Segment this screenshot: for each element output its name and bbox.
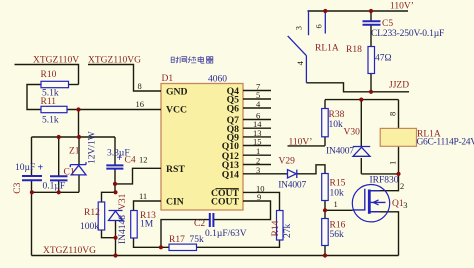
- diode V30 IN4007: [353, 147, 370, 157]
- node gate divider: [323, 208, 327, 212]
- wire CIN pin11 to R13: [134, 201, 162, 211]
- wire R18 bottom lead: [370, 74, 372, 92]
- svg-text:V31: V31: [118, 193, 128, 210]
- wire C3 top lead: [31, 137, 33, 175]
- svg-text:C1: C1: [64, 168, 75, 178]
- wire C3 bottom lead down left vertical: [31, 181, 33, 256]
- svg-text:3: 3: [403, 200, 407, 210]
- wire coil bottom to drain node: [371, 146, 399, 190]
- wire C4 leads: [114, 137, 116, 192]
- glyph 继: [188, 57, 196, 63]
- svg-text:R15: R15: [330, 179, 346, 189]
- svg-text:1: 1: [334, 199, 338, 209]
- svg-text:+: +: [117, 153, 123, 164]
- wire R11 right to VCC pin16: [67, 109, 161, 111]
- op-amp U1 : IC D1 4060 body: [161, 84, 243, 211]
- svg-text:Z1: Z1: [69, 147, 80, 157]
- node 24V rail V30: [359, 98, 363, 102]
- node drain: [396, 172, 400, 176]
- node R11/VCC: [76, 107, 80, 111]
- wire top rail (12V): [32, 136, 116, 138]
- svg-text:COUT: COUT: [211, 197, 240, 208]
- wire Q8 stub pin14: [243, 127, 271, 129]
- wire R15 bottom / gate node: [325, 201, 353, 219]
- svg-text:12: 12: [139, 155, 148, 165]
- diode V29 IN4007: [288, 170, 297, 178]
- svg-text:11: 11: [139, 191, 147, 201]
- resistor R15: [322, 174, 329, 201]
- svg-text:RST: RST: [166, 164, 185, 175]
- wire 110V top rail: [308, 10, 409, 12]
- svg-text:R12: R12: [84, 208, 100, 218]
- resistor R10: [41, 81, 69, 87]
- svg-text:110V’: 110V’: [390, 2, 414, 12]
- svg-text:R16: R16: [330, 221, 346, 231]
- node C2/R17: [159, 245, 163, 249]
- wire C5 to R18: [370, 11, 372, 47]
- capacitor C4: [106, 165, 123, 168]
- wire R16 bottom to rail: [324, 246, 326, 256]
- svg-text:IN4007: IN4007: [278, 181, 306, 191]
- svg-text:1M: 1M: [140, 220, 154, 230]
- resistor R38: [322, 109, 329, 137]
- relay contact RL1A: [288, 11, 326, 83]
- node V31 top: [113, 190, 117, 194]
- wire R38 bottom to 110V mid label: [288, 137, 326, 146]
- svg-text:V29: V29: [279, 157, 296, 167]
- wire Z1 leads: [78, 137, 80, 192]
- wire pin3 Q14 to V29: [243, 173, 288, 175]
- node C3 bottom: [30, 190, 34, 194]
- svg-text:R14: R14: [271, 220, 281, 236]
- svg-text:0.1µF: 0.1µF: [43, 182, 66, 192]
- node C4/RST: [113, 182, 117, 186]
- wire XTGZ110VG to GND pin8: [88, 65, 161, 92]
- wire bottom rail XTGZ110VG: [32, 255, 399, 257]
- glyph 间: [180, 57, 187, 63]
- svg-text:XTGZ110VG: XTGZ110VG: [88, 56, 141, 66]
- svg-text:110V’: 110V’: [289, 138, 313, 148]
- IC pin names: [166, 86, 240, 207]
- wire Q7 stub pin6: [243, 119, 271, 121]
- svg-text:10µF: 10µF: [15, 163, 35, 173]
- wire Q5 stub pin5: [243, 98, 271, 100]
- svg-text:IN4007: IN4007: [326, 146, 354, 156]
- wire contact pin4 zigzag to JJZD: [306, 83, 409, 92]
- svg-text:12V/1W: 12V/1W: [88, 131, 98, 164]
- svg-text:2: 2: [400, 181, 404, 191]
- svg-text:IRF830: IRF830: [370, 176, 399, 186]
- svg-text:C2: C2: [194, 219, 205, 229]
- wire Q4 stub pin7: [243, 90, 271, 92]
- svg-text:R38: R38: [329, 110, 345, 120]
- node R16 ground: [323, 253, 327, 257]
- overline of COUT pin 10: [216, 188, 239, 190]
- capacitor C2: [210, 213, 214, 227]
- node JJZD R18: [369, 90, 373, 94]
- svg-text:9: 9: [257, 192, 261, 202]
- svg-text:R11: R11: [41, 97, 57, 107]
- svg-text:R18: R18: [346, 45, 362, 55]
- resistor R11: [41, 106, 67, 112]
- wire Q10 stub pin15: [243, 145, 271, 147]
- svg-text:27k: 27k: [283, 224, 293, 239]
- wire R17 right to R14 bottom: [197, 240, 280, 247]
- node ground rail left: [113, 253, 117, 257]
- svg-text:3: 3: [294, 26, 304, 30]
- svg-text:D1: D1: [162, 74, 174, 84]
- svg-text:56k: 56k: [330, 230, 345, 240]
- svg-text:CL233-250V-0.1µF: CL233-250V-0.1µF: [371, 29, 444, 39]
- capacitor C1: [50, 176, 68, 180]
- wire V30 leads: [361, 100, 398, 174]
- svg-text:8: 8: [388, 112, 398, 116]
- svg-text:C5: C5: [382, 19, 393, 29]
- wire mid ground rail: [32, 191, 80, 193]
- wire C2 right to pin9: [214, 201, 271, 220]
- resistor R13: [131, 211, 138, 239]
- svg-text:10k: 10k: [329, 120, 344, 130]
- svg-text:+: +: [38, 163, 44, 174]
- node Z1 top: [77, 135, 81, 139]
- wire R12 top jog: [102, 192, 116, 202]
- svg-text:C4: C4: [125, 156, 136, 166]
- svg-text:IN4148: IN4148: [118, 215, 128, 244]
- node 时间继电器 title glyphs: [171, 56, 213, 63]
- svg-text:Q14: Q14: [222, 170, 239, 181]
- wire Q12 stub pin1: [243, 154, 271, 156]
- wire C1 leads: [58, 137, 60, 192]
- transistor Q1 IRF830: [352, 185, 389, 222]
- capacitor C3: [22, 176, 42, 180]
- resistor R17: [169, 244, 197, 250]
- wire source to ground rail: [371, 212, 399, 256]
- wire R10 left lead + bracket + R11 left lead: [27, 85, 41, 110]
- glyph 器: [206, 57, 213, 63]
- svg-text:10k: 10k: [330, 189, 345, 199]
- node C1 bottom: [57, 190, 61, 194]
- svg-text:3: 3: [256, 165, 260, 175]
- zener Z1: [70, 162, 86, 175]
- wire V31 bottom to ground rail: [115, 221, 117, 256]
- node V31 bottom: [113, 236, 117, 240]
- svg-text:G6C-1114P-24V: G6C-1114P-24V: [417, 138, 474, 148]
- svg-text:RL1A: RL1A: [315, 44, 339, 54]
- wire Q6 stub pin4: [243, 107, 271, 109]
- svg-text:Q1: Q1: [392, 199, 404, 209]
- capacitor C5: [363, 21, 381, 25]
- svg-text:R10: R10: [41, 70, 57, 80]
- svg-text:V30: V30: [344, 128, 361, 138]
- svg-text:75k: 75k: [190, 235, 205, 245]
- svg-text:0.1µF/63V: 0.1µF/63V: [205, 229, 247, 239]
- wire pin10 to R14 top: [243, 192, 280, 210]
- svg-text:XTGZ110V: XTGZ110V: [33, 56, 79, 66]
- node 110V rail pin6: [323, 9, 327, 13]
- wire C2 branch vertical: [161, 220, 209, 248]
- wire XTGZ110V top-left: [15, 11, 410, 256]
- resistor R18: [368, 47, 375, 74]
- svg-text:16: 16: [136, 99, 145, 109]
- wire Q9 stub pin13: [243, 136, 271, 138]
- svg-text:6: 6: [314, 24, 324, 28]
- svg-text:VCC: VCC: [166, 105, 187, 116]
- wire Q13 stub pin2: [243, 164, 271, 166]
- wire V29 to R15 top jog: [298, 165, 326, 174]
- wire junction R11 down to top rail: [78, 110, 80, 138]
- svg-text:R17: R17: [169, 235, 185, 245]
- wire R13 bottom / R17 net: [134, 238, 170, 247]
- svg-text:XTGZ110VG: XTGZ110VG: [43, 246, 96, 256]
- svg-text:4060: 4060: [208, 75, 227, 85]
- svg-text:100k: 100k: [80, 222, 99, 232]
- relay coil RL1A box: [380, 128, 416, 146]
- svg-text:15: 15: [253, 137, 262, 147]
- glyph 时: [171, 57, 179, 63]
- resistor R12: [98, 202, 105, 230]
- wire 24V rail (R38/V30/coil top): [325, 100, 399, 129]
- wire R10 right lead: [69, 84, 79, 86]
- wire RST pin12 to C4 bottom: [115, 168, 161, 184]
- svg-text:Q6: Q6: [227, 104, 240, 115]
- svg-text:1: 1: [388, 161, 398, 165]
- svg-text:CIN: CIN: [166, 197, 184, 208]
- svg-text:47Ω: 47Ω: [375, 54, 392, 64]
- svg-text:5.1k: 5.1k: [42, 116, 59, 126]
- svg-text:JJZD: JJZD: [389, 81, 409, 91]
- node 110V rail C5: [369, 9, 373, 13]
- resistor R16: [322, 219, 329, 246]
- glyph 电: [198, 56, 204, 63]
- diode V31 IN4148: [109, 211, 123, 221]
- wire R12 bottom to V31 bottom: [102, 230, 116, 238]
- svg-text:GND: GND: [166, 87, 188, 98]
- svg-text:C3: C3: [13, 182, 23, 193]
- resistor R14: [277, 211, 284, 241]
- node C1 top: [57, 135, 61, 139]
- svg-text:8: 8: [138, 81, 142, 91]
